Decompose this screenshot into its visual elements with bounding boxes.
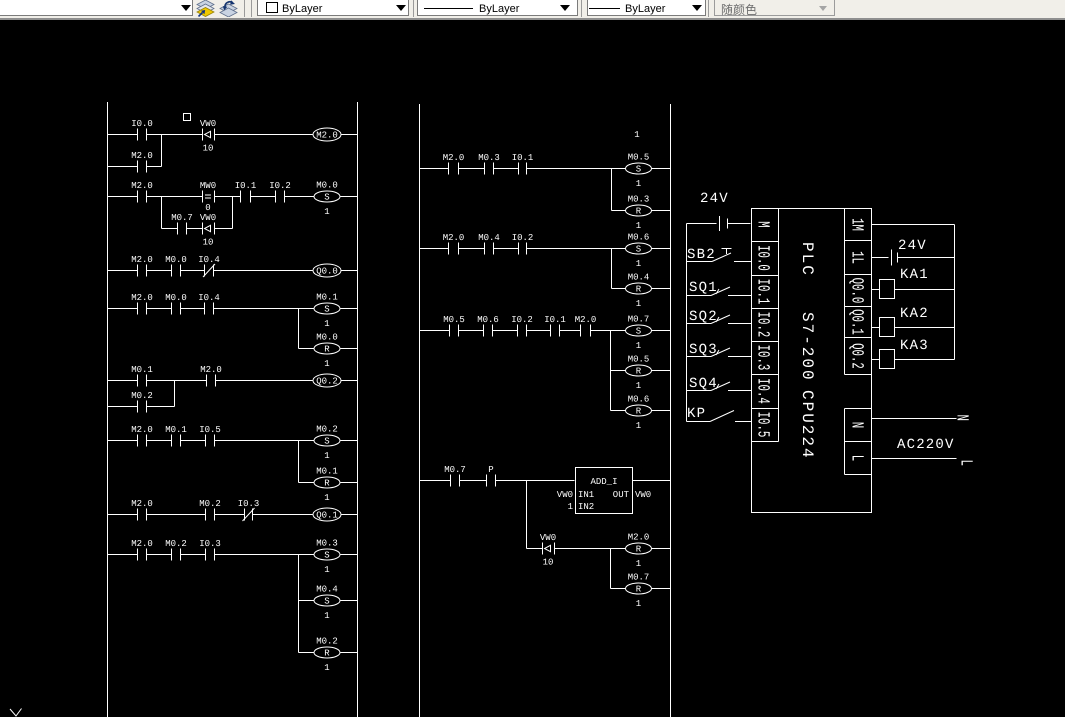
svg-text:M2.0: M2.0 <box>131 425 153 435</box>
contact I0.1 rung2 <box>235 181 257 203</box>
svg-text:Q0.0: Q0.0 <box>316 266 338 276</box>
contact I0.5 rung6 <box>199 425 221 447</box>
relay supply bus <box>954 225 956 360</box>
coil R M2.0 <box>626 533 652 570</box>
contact M0.2 rung5 parallel <box>131 391 153 413</box>
wire rung8 <box>108 554 358 556</box>
svg-text:Q0.2: Q0.2 <box>847 343 866 369</box>
svg-text:M0.7: M0.7 <box>444 465 466 475</box>
wire rung3 <box>108 270 358 272</box>
coil M2.0 <box>313 128 341 141</box>
svg-text:S7-200: S7-200 <box>798 312 816 382</box>
coil S M0.5 <box>626 153 652 190</box>
svg-text:M0.3: M0.3 <box>478 153 500 163</box>
svg-text:R: R <box>636 544 642 554</box>
coil S M0.6 <box>626 233 652 270</box>
svg-text:1: 1 <box>324 451 329 461</box>
svg-text:N: N <box>952 415 971 421</box>
wire mid rung1 <box>420 168 671 170</box>
svg-text:I0.2: I0.2 <box>753 312 772 338</box>
relay coil KA1 <box>872 267 955 299</box>
wire rung5 parallel branch <box>108 406 175 408</box>
svg-text:M2.0: M2.0 <box>131 293 153 303</box>
svg-text:Q0.1: Q0.1 <box>847 309 866 335</box>
pressure switch KP <box>687 406 752 422</box>
coil R M0.5 <box>626 355 652 392</box>
svg-text:1: 1 <box>636 299 641 309</box>
wire mid rung4 <box>420 480 575 482</box>
pick box cursor <box>184 114 191 121</box>
battery 24V right <box>892 250 898 266</box>
wire mid rung3 coil branch <box>611 331 671 411</box>
terminal N box <box>845 409 872 475</box>
svg-text:SB2: SB2 <box>687 247 716 263</box>
wire rung2 branch right junction <box>232 197 234 229</box>
wire 1M to relay bus <box>872 224 955 226</box>
contact M2.0 rung3 <box>131 255 153 277</box>
compare contact VW0&lt;10 rung2 <box>200 213 216 248</box>
PLC main box <box>752 209 872 513</box>
contact M2.0 rung8 <box>131 539 153 561</box>
svg-text:10: 10 <box>203 144 214 154</box>
svg-text:1: 1 <box>636 259 641 269</box>
svg-text:M2.0: M2.0 <box>131 539 153 549</box>
svg-text:I0.4: I0.4 <box>753 378 772 404</box>
svg-text:M0.5: M0.5 <box>628 153 650 163</box>
limit switch SQ3 <box>687 342 752 358</box>
coil S M0.2 <box>314 425 340 462</box>
svg-text:M0.5: M0.5 <box>443 315 465 325</box>
contact P edge mid4 <box>487 465 496 487</box>
svg-text:M0.2: M0.2 <box>131 391 153 401</box>
contact M2.0 rung5 <box>200 365 222 387</box>
middle ladder right power rail <box>670 104 672 717</box>
wire mid rung2 coil branch <box>612 249 671 289</box>
svg-text:R: R <box>324 648 330 658</box>
svg-text:M0.7: M0.7 <box>628 573 650 583</box>
contact I0.4 rung4 <box>198 293 220 315</box>
svg-text:P: P <box>488 465 493 475</box>
contact M0.7 mid4 <box>444 465 466 487</box>
svg-text:M2.0: M2.0 <box>628 533 650 543</box>
wire rung2 branch left junction <box>161 197 163 229</box>
svg-text:Q0.0: Q0.0 <box>847 278 866 304</box>
contact I0.0 <box>131 119 153 141</box>
contact M2.0 rung1 parallel <box>131 151 153 173</box>
svg-text:S: S <box>324 596 329 606</box>
middle ladder left power rail <box>419 104 421 717</box>
contact M0.0 rung3 <box>165 255 187 277</box>
svg-text:1: 1 <box>636 341 641 351</box>
compare contact MW0=0 rung2 <box>200 181 216 213</box>
svg-text:ADD_I: ADD_I <box>590 477 617 487</box>
svg-text:Q0.1: Q0.1 <box>316 510 338 520</box>
svg-text:VW0: VW0 <box>557 490 573 500</box>
svg-text:1: 1 <box>636 179 641 189</box>
svg-text:KA3: KA3 <box>900 338 929 354</box>
svg-text:M0.1: M0.1 <box>131 365 153 375</box>
svg-text:M2.0: M2.0 <box>443 153 465 163</box>
svg-text:MW0: MW0 <box>200 181 216 191</box>
coil S M0.7 <box>626 315 652 352</box>
contact I0.4 NC rung3 <box>198 255 220 277</box>
wire mid rung3 <box>420 330 671 332</box>
limit switch SQ4 <box>687 376 752 392</box>
svg-text:M0.5: M0.5 <box>628 355 650 365</box>
svg-text:R: R <box>636 406 642 416</box>
left supply bus <box>686 224 688 422</box>
svg-text:VW0: VW0 <box>635 490 651 500</box>
contact M2.0 mid1 <box>443 153 465 175</box>
contact M2.0 rung6 <box>131 425 153 447</box>
svg-text:I0.1: I0.1 <box>235 181 257 191</box>
wire L line <box>872 458 957 460</box>
svg-text:I0.4: I0.4 <box>198 293 220 303</box>
svg-text:M0.3: M0.3 <box>628 195 650 205</box>
svg-text:1: 1 <box>568 502 573 512</box>
wire rung5 branch junction <box>174 381 176 407</box>
wire rung6 coil branch <box>299 441 358 483</box>
svg-text:M0.4: M0.4 <box>628 273 650 283</box>
svg-text:M0.0: M0.0 <box>165 293 187 303</box>
svg-text:10: 10 <box>203 238 214 248</box>
svg-text:M2.0: M2.0 <box>200 365 222 375</box>
svg-text:CPU224: CPU224 <box>798 390 816 460</box>
svg-text:KP: KP <box>687 406 706 422</box>
limit switch SQ2 <box>687 309 752 325</box>
svg-text:1: 1 <box>636 381 641 391</box>
svg-text:M0.4: M0.4 <box>478 233 500 243</box>
svg-text:I0.1: I0.1 <box>544 315 566 325</box>
svg-text:I0.2: I0.2 <box>512 233 534 243</box>
contact I0.1 mid1 <box>512 153 534 175</box>
svg-text:M2.0: M2.0 <box>316 130 338 140</box>
svg-text:M0.0: M0.0 <box>316 181 338 191</box>
coil R M0.6 <box>626 395 652 432</box>
contact M0.5 mid3 <box>443 315 465 337</box>
svg-text:R: R <box>636 206 642 216</box>
coil S M0.0 <box>314 181 340 218</box>
wire mid rung4 branch junction <box>526 481 528 549</box>
svg-text:M0.7: M0.7 <box>171 213 193 223</box>
svg-text:1: 1 <box>634 130 639 140</box>
svg-text:R: R <box>636 584 642 594</box>
svg-text:I0.2: I0.2 <box>269 181 291 191</box>
svg-text:M: M <box>753 221 772 227</box>
svg-text:S: S <box>636 164 641 174</box>
coil S M0.4 <box>314 585 340 622</box>
svg-text:I0.2: I0.2 <box>511 315 533 325</box>
svg-text:M0.2: M0.2 <box>165 539 187 549</box>
svg-text:I0.5: I0.5 <box>753 412 772 438</box>
svg-text:L: L <box>847 455 866 461</box>
svg-text:S: S <box>324 550 329 560</box>
PLC title PLC S7-200 CPU224 <box>798 242 816 460</box>
svg-text:0: 0 <box>205 203 210 213</box>
svg-text:1M: 1M <box>847 218 866 231</box>
wire mid branch lower junction <box>611 549 671 589</box>
wire rung5 <box>108 380 358 382</box>
wire rung1 parallel branch <box>108 166 162 168</box>
svg-text:24V: 24V <box>700 191 729 207</box>
svg-text:M2.0: M2.0 <box>575 315 597 325</box>
contact M0.2 rung8 <box>165 539 187 561</box>
svg-text:I0.1: I0.1 <box>753 279 772 305</box>
contact I0.3 NC rung7 <box>238 499 260 521</box>
svg-text:S: S <box>324 192 329 202</box>
svg-text:S: S <box>324 436 329 446</box>
coil S M0.1 <box>314 293 340 330</box>
contact I0.2 rung2 <box>269 181 291 203</box>
svg-text:L: L <box>956 460 975 466</box>
svg-text:I0.3: I0.3 <box>753 345 772 371</box>
svg-text:R: R <box>324 478 330 488</box>
svg-text:IN2: IN2 <box>578 502 594 512</box>
wire rung2 lower branch <box>162 228 233 230</box>
svg-text:M0.1: M0.1 <box>165 425 187 435</box>
contact M0.6 mid3 <box>477 315 499 337</box>
wire rung2 <box>108 196 358 198</box>
output terminal column <box>845 209 872 375</box>
pushbutton SB2 <box>687 247 752 263</box>
svg-text:1: 1 <box>324 359 329 369</box>
svg-text:N: N <box>847 422 866 428</box>
left ladder left power rail <box>107 102 109 717</box>
coil R M0.3 <box>626 195 652 232</box>
compare contact VW0&lt;10 mid <box>540 533 556 568</box>
svg-text:1: 1 <box>324 319 329 329</box>
relay coil KA3 <box>872 338 955 369</box>
svg-text:10: 10 <box>543 558 554 568</box>
svg-text:M0.2: M0.2 <box>316 637 338 647</box>
svg-text:AC220V: AC220V <box>897 437 955 453</box>
svg-text:1: 1 <box>636 221 641 231</box>
contact M0.4 mid2 <box>478 233 500 255</box>
wire M terminal wire <box>687 223 751 225</box>
wire rung1 <box>108 134 358 136</box>
contact I0.1 mid3 <box>544 315 566 337</box>
svg-text:I0.5: I0.5 <box>199 425 221 435</box>
svg-text:I0.1: I0.1 <box>512 153 534 163</box>
contact M2.0 rung7 <box>131 499 153 521</box>
input terminal column <box>752 209 779 442</box>
svg-text:1: 1 <box>636 421 641 431</box>
wire 1L wire <box>872 257 955 259</box>
svg-text:KA2: KA2 <box>900 306 929 322</box>
svg-text:M0.2: M0.2 <box>316 425 338 435</box>
wire rung1 branch junction <box>161 135 163 167</box>
contact M0.0 rung4 <box>165 293 187 315</box>
svg-text:1: 1 <box>324 611 329 621</box>
svg-text:M0.7: M0.7 <box>628 315 650 325</box>
svg-text:1: 1 <box>324 663 329 673</box>
coil S M0.3 <box>314 539 340 576</box>
wire N line <box>872 418 957 420</box>
wire rung4 coil branch <box>299 309 358 349</box>
svg-text:S: S <box>636 244 641 254</box>
svg-text:I0.0: I0.0 <box>753 245 772 271</box>
contact I0.2 mid2 <box>512 233 534 255</box>
wire rung7 <box>108 514 358 516</box>
svg-text:M2.0: M2.0 <box>131 255 153 265</box>
contact M2.0 mid2 <box>443 233 465 255</box>
svg-text:VW0: VW0 <box>540 533 556 543</box>
svg-text:M0.0: M0.0 <box>165 255 187 265</box>
wire mid rung2 <box>420 248 671 250</box>
contact M2.0 rung2 <box>131 181 153 203</box>
svg-text:KA1: KA1 <box>900 267 929 283</box>
svg-text:24V: 24V <box>898 238 927 254</box>
wire mid rung1 coil branch <box>612 169 671 211</box>
svg-text:M2.0: M2.0 <box>131 181 153 191</box>
svg-text:Q0.2: Q0.2 <box>316 376 338 386</box>
limit switch SQ1 <box>687 280 752 296</box>
svg-text:1L: 1L <box>847 251 866 264</box>
svg-text:M0.1: M0.1 <box>316 467 338 477</box>
wire rung6 <box>108 440 358 442</box>
contact I0.2 mid3 <box>511 315 533 337</box>
contact M0.2 rung7 <box>199 499 221 521</box>
coil R M0.7 <box>626 573 652 610</box>
svg-text:I0.3: I0.3 <box>199 539 221 549</box>
svg-text:1: 1 <box>324 493 329 503</box>
svg-text:1: 1 <box>324 565 329 575</box>
svg-text:M0.6: M0.6 <box>628 233 650 243</box>
contact M2.0 rung4 <box>131 293 153 315</box>
left ladder right power rail <box>357 102 359 717</box>
svg-text:S: S <box>636 326 641 336</box>
wire mid branch VW0 wire <box>527 548 671 550</box>
svg-text:SQ1: SQ1 <box>689 280 718 296</box>
svg-text:M0.0: M0.0 <box>316 333 338 343</box>
UCS icon corner <box>10 709 22 717</box>
function block ADD_I <box>576 468 633 514</box>
svg-text:M0.4: M0.4 <box>316 585 338 595</box>
svg-text:M0.6: M0.6 <box>628 395 650 405</box>
contact I0.3 rung8 <box>199 539 221 561</box>
svg-text:1: 1 <box>636 599 641 609</box>
svg-text:M2.0: M2.0 <box>131 151 153 161</box>
contact M0.3 mid1 <box>478 153 500 175</box>
wire rung8 coil branch <box>299 555 358 653</box>
svg-text:1: 1 <box>324 207 329 217</box>
contact M0.1 rung5 <box>131 365 153 387</box>
coil R M0.4 <box>626 273 652 310</box>
wire rung4 <box>108 308 358 310</box>
svg-text:IN1: IN1 <box>578 490 594 500</box>
svg-text:S: S <box>324 304 329 314</box>
svg-text:M0.1: M0.1 <box>316 293 338 303</box>
coil R M0.0 <box>314 333 340 370</box>
svg-text:I0.3: I0.3 <box>238 499 260 509</box>
coil R M0.1 <box>314 467 340 504</box>
coil Q0.2 <box>313 374 341 387</box>
coil R M0.2 <box>314 637 340 674</box>
battery 24V left <box>720 216 728 231</box>
compare contact VW0&lt;10 rung1 <box>200 119 216 154</box>
relay coil KA2 <box>872 306 955 337</box>
svg-text:PLC: PLC <box>798 242 816 277</box>
svg-text:I0.4: I0.4 <box>198 255 220 265</box>
svg-text:R: R <box>636 284 642 294</box>
svg-text:M0.6: M0.6 <box>477 315 499 325</box>
svg-text:OUT: OUT <box>613 490 630 500</box>
coil Q0.1 <box>313 508 341 521</box>
svg-text:M2.0: M2.0 <box>131 499 153 509</box>
coil Q0.0 <box>313 264 341 277</box>
wire mid rung4 out <box>633 480 671 482</box>
contact M0.7 rung2 <box>171 213 193 235</box>
svg-text:VW0: VW0 <box>200 119 216 129</box>
svg-text:R: R <box>636 366 642 376</box>
contact M2.0 mid3 <box>575 315 597 337</box>
svg-text:M2.0: M2.0 <box>443 233 465 243</box>
contact M0.1 rung6 <box>165 425 187 447</box>
svg-text:I0.0: I0.0 <box>131 119 153 129</box>
svg-text:1: 1 <box>636 559 641 569</box>
svg-text:VW0: VW0 <box>200 213 216 223</box>
svg-text:R: R <box>324 344 330 354</box>
svg-text:M0.3: M0.3 <box>316 539 338 549</box>
svg-text:M0.2: M0.2 <box>199 499 221 509</box>
